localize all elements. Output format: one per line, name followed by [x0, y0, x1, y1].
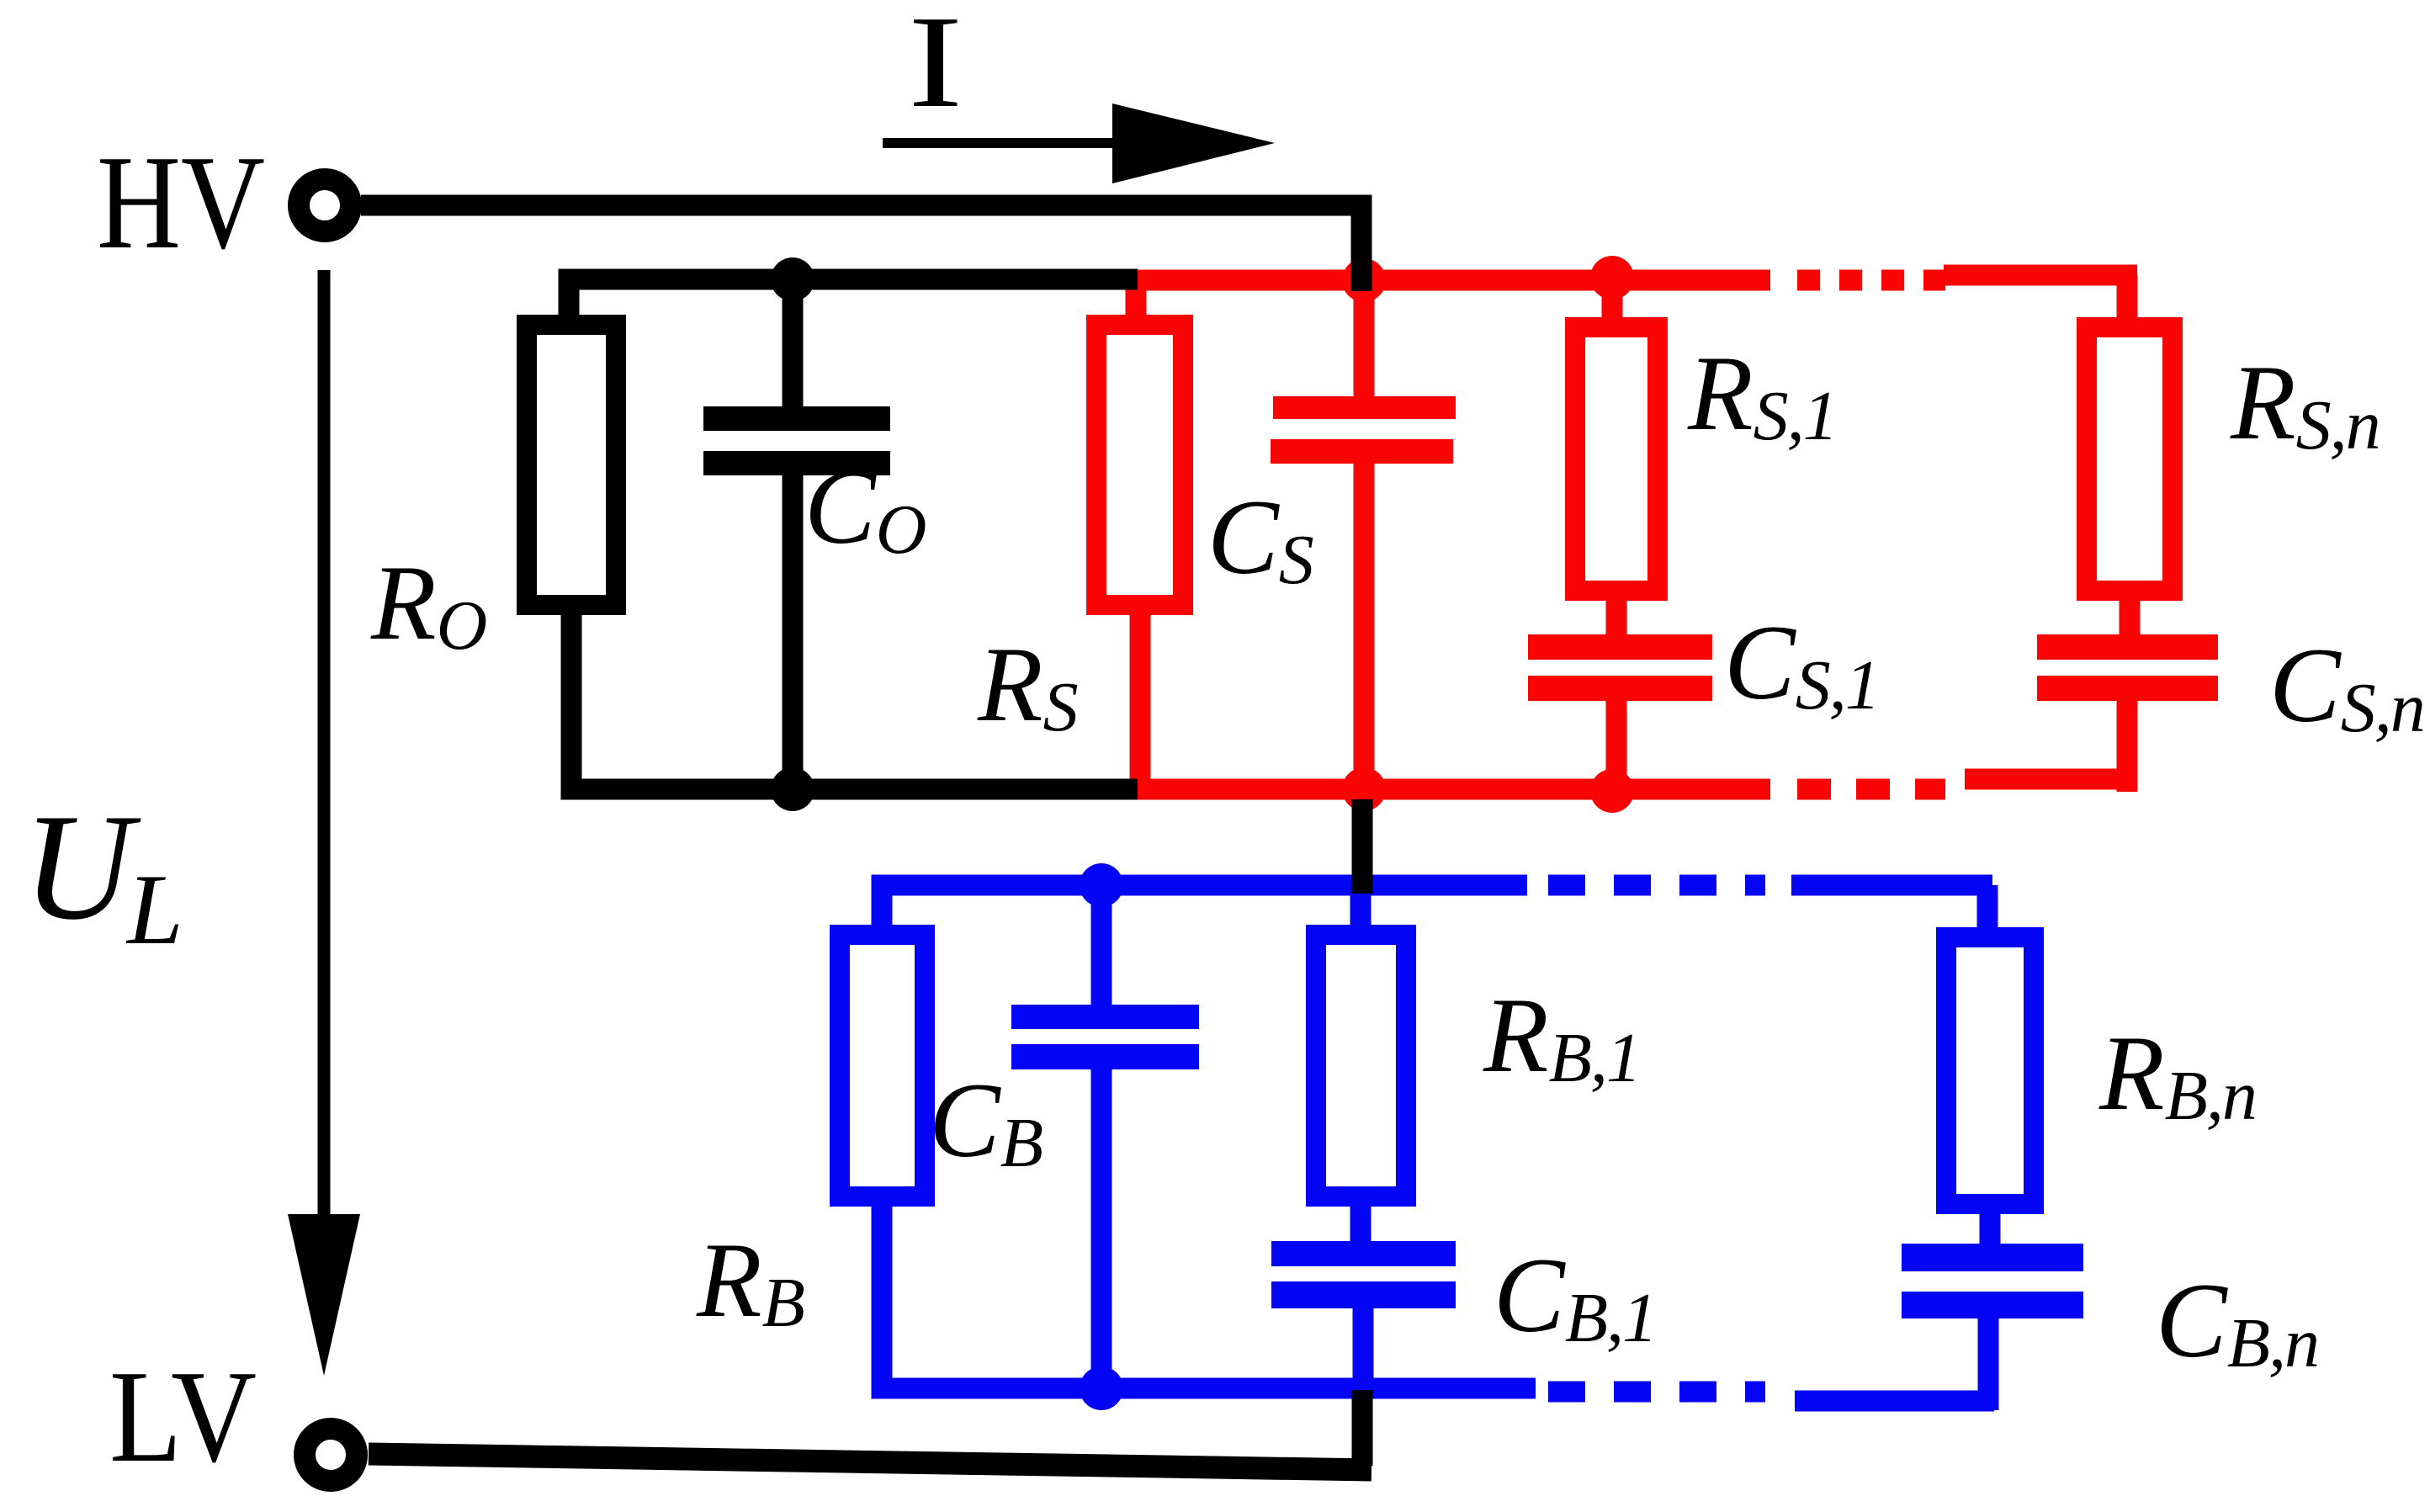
svg-text:LV: LV — [109, 1343, 257, 1489]
svg-text:L: L — [125, 853, 183, 965]
svg-text:I: I — [908, 0, 963, 135]
svg-text:U: U — [23, 783, 141, 952]
svg-text:HV: HV — [97, 127, 265, 277]
